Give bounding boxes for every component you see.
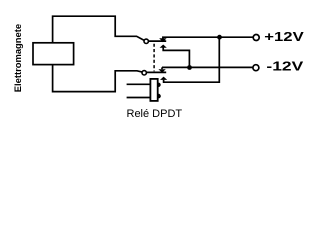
svg-text:-12V: -12V	[266, 60, 303, 74]
svg-text:Elettromagnete: Elettromagnete	[12, 24, 23, 92]
svg-text:+12V: +12V	[264, 30, 303, 44]
svg-text:Relé DPDT: Relé DPDT	[127, 108, 183, 120]
